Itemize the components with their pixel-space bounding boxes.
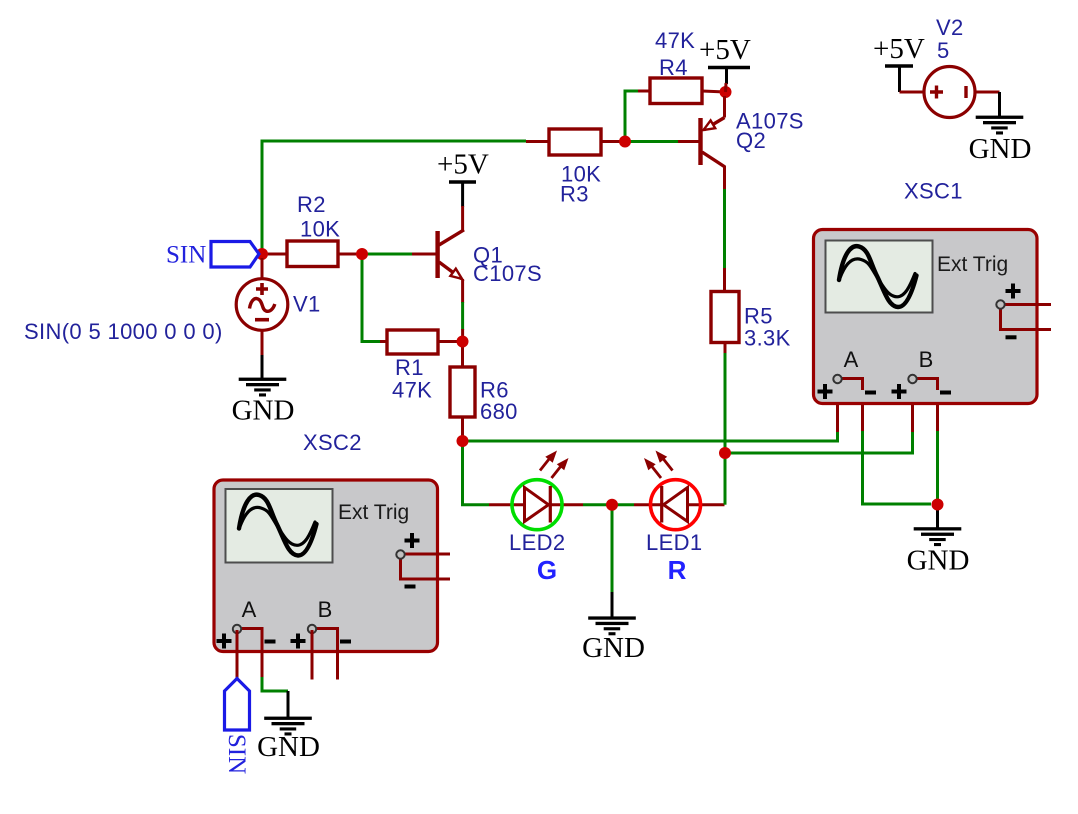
node F bbox=[457, 435, 469, 447]
svg-text:Ext Trig: Ext Trig bbox=[937, 253, 1008, 276]
svg-text:47K: 47K bbox=[655, 28, 695, 53]
wire node E1 to R6 bbox=[461, 342, 464, 368]
wire node B2 to Q2 base bbox=[625, 140, 699, 143]
svg-text:G: G bbox=[537, 555, 557, 585]
wire SIN node to R2 bbox=[262, 253, 287, 256]
wire R3 left pin bbox=[526, 140, 549, 143]
svg-text:SIN: SIN bbox=[223, 734, 250, 774]
svg-text:Q2: Q2 bbox=[736, 128, 766, 153]
svg-text:R: R bbox=[668, 555, 687, 585]
resistor R2 bbox=[287, 192, 340, 267]
svg-text:SIN: SIN bbox=[166, 242, 206, 269]
ground below XSC2 bbox=[257, 717, 320, 763]
wire Q2 collector down to R5 bbox=[723, 166, 726, 292]
node P2 bbox=[720, 86, 732, 98]
label V1 params bbox=[24, 319, 223, 344]
wire R4 right pin to node P2 bbox=[702, 91, 726, 92]
ground below V2 bbox=[969, 116, 1032, 165]
wire node G to LED1 bbox=[612, 503, 725, 506]
wire R1 right pin to node E1 bbox=[438, 340, 463, 343]
resistor R1 bbox=[387, 330, 438, 403]
svg-text:V2: V2 bbox=[936, 15, 964, 40]
svg-text:GND: GND bbox=[582, 632, 645, 664]
ground below XSC1 bbox=[907, 506, 970, 577]
svg-text:+5V: +5V bbox=[873, 33, 925, 65]
ground below LEDs bbox=[582, 616, 645, 664]
svg-text:R2: R2 bbox=[297, 192, 326, 217]
wire XSC1 A+ pin stub bbox=[836, 380, 839, 432]
svg-text:5: 5 bbox=[937, 38, 950, 63]
label V1 bbox=[293, 292, 321, 317]
wire LED2 to node G bbox=[583, 503, 612, 506]
LED2 (green) bbox=[509, 451, 569, 586]
svg-text:XSC1: XSC1 bbox=[904, 179, 963, 204]
source V2 with +5V bbox=[873, 15, 1000, 118]
svg-text:3.3K: 3.3K bbox=[744, 326, 791, 351]
svg-text:SIN(0 5 1000 0 0 0): SIN(0 5 1000 0 0 0) bbox=[24, 319, 223, 344]
wire XSC2 A- to ground bbox=[262, 630, 288, 717]
wire XSC2 A+ down to connector bbox=[236, 630, 239, 678]
svg-text:C107S: C107S bbox=[473, 261, 542, 286]
resistor R3 bbox=[549, 129, 601, 207]
connector SIN bbox=[166, 242, 259, 269]
power +5V above Q1 bbox=[437, 149, 489, 231]
svg-text:A: A bbox=[844, 347, 859, 372]
resistor R4 bbox=[650, 28, 702, 104]
wire R3 right pin to node B2 bbox=[601, 140, 625, 143]
svg-text:R1: R1 bbox=[395, 355, 424, 380]
wire XSC1 B+ pin stub bbox=[911, 380, 914, 432]
svg-text:+5V: +5V bbox=[437, 149, 489, 181]
node B1 bbox=[356, 248, 368, 260]
wire XSC2 B+ stub bbox=[311, 630, 314, 680]
resistor R5 bbox=[711, 292, 791, 351]
power +5V above Q2 bbox=[699, 34, 751, 92]
node XSC1 ground junction bbox=[932, 499, 944, 511]
svg-text:10K: 10K bbox=[300, 217, 340, 242]
wire XSC1 A- to ground node bbox=[863, 380, 932, 504]
svg-text:B: B bbox=[318, 597, 333, 622]
svg-text:Ext Trig: Ext Trig bbox=[338, 501, 409, 524]
wire node F down to LED2 bbox=[463, 441, 490, 505]
svg-text:GND: GND bbox=[257, 731, 320, 763]
svg-text:R4: R4 bbox=[659, 55, 688, 80]
resistor R6 bbox=[450, 367, 518, 424]
svg-text:680: 680 bbox=[480, 399, 518, 424]
svg-text:GND: GND bbox=[969, 133, 1032, 165]
svg-text:R3: R3 bbox=[560, 182, 589, 207]
svg-text:LED2: LED2 bbox=[509, 530, 565, 555]
connector SIN below XSC2 bbox=[223, 679, 250, 775]
wire node G down to ground bbox=[611, 505, 614, 617]
ground below V1 bbox=[232, 378, 295, 427]
wire node H down to LED1 right lead bbox=[724, 453, 727, 505]
wire XSC1 B- to ground node bbox=[936, 380, 939, 500]
wire node H to XSC1 B+ bbox=[725, 430, 913, 453]
oscilloscope XSC2 bbox=[214, 430, 450, 652]
wire XSC2 B- stub bbox=[336, 630, 339, 680]
svg-text:GND: GND bbox=[232, 395, 295, 427]
wire node B2 up to R4 left bbox=[625, 91, 650, 142]
svg-text:B: B bbox=[919, 347, 934, 372]
transistor Q2 (PNP A107S) bbox=[698, 96, 804, 167]
svg-text:GND: GND bbox=[907, 545, 970, 577]
wire SIN node up and across to R3 bbox=[262, 141, 526, 254]
wire Q1 emitter down to node E1 bbox=[461, 279, 464, 342]
wire node B1 to Q1 base bbox=[362, 253, 436, 256]
oscilloscope XSC1 bbox=[814, 179, 1052, 404]
wire R5 bottom to node H bbox=[724, 342, 727, 453]
svg-text:+5V: +5V bbox=[699, 34, 751, 66]
wire node B1 down to R1 bbox=[362, 254, 387, 342]
svg-text:V1: V1 bbox=[293, 292, 321, 317]
source V1 bbox=[236, 258, 288, 378]
svg-text:47K: 47K bbox=[392, 378, 432, 403]
wire node F across to XSC1 A+ bbox=[463, 430, 838, 441]
node E1 bbox=[457, 336, 469, 348]
wire LED2 lead across bbox=[489, 503, 583, 506]
svg-text:XSC2: XSC2 bbox=[303, 430, 362, 455]
svg-text:LED1: LED1 bbox=[646, 530, 702, 555]
svg-text:A: A bbox=[242, 597, 257, 622]
node SIN (junction dot) bbox=[256, 248, 268, 260]
node B2 bbox=[619, 136, 631, 148]
wire R6 bottom to node F bbox=[461, 417, 464, 441]
node G bbox=[606, 499, 618, 511]
transistor Q1 (NPN C107S) bbox=[435, 230, 542, 286]
wire R2 to node B1 bbox=[338, 253, 362, 256]
node H bbox=[719, 447, 731, 459]
LED1 (red) bbox=[644, 451, 702, 586]
